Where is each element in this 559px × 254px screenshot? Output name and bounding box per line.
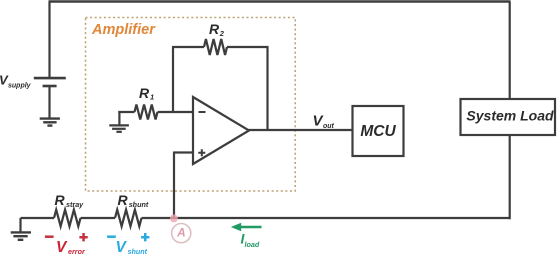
current arrow Iload: [231, 223, 262, 232]
label Rstray: [55, 192, 85, 209]
svg-text:MCU: MCU: [360, 123, 396, 140]
resistor R1: [135, 105, 158, 120]
wire: R1 to op-amp inverting input: [158, 111, 194, 113]
amplifier dashed boundary box: [86, 18, 296, 192]
wire: feedback left vertical: [172, 47, 174, 113]
svg-text:2: 2: [219, 29, 225, 38]
wire: top rail: [49, 0, 511, 2]
label Verror: [56, 239, 86, 254]
svg-text:load: load: [245, 240, 260, 249]
svg-text:1: 1: [150, 93, 154, 102]
wire: between Rstray and Rshunt: [81, 217, 116, 219]
svg-text:System Load: System Load: [466, 108, 554, 124]
ground: bottom left: [11, 218, 31, 240]
wire: feedback top right segment: [227, 46, 269, 48]
label Amplifier: [91, 22, 156, 38]
label Iload: [241, 231, 260, 250]
label Vout: [313, 113, 335, 131]
label Rshunt: [118, 192, 149, 209]
svg-text:R: R: [118, 192, 129, 208]
op-amp U1: [193, 97, 249, 164]
node A junction dot: [170, 214, 178, 222]
label node A (circled): [172, 224, 191, 243]
svg-text:out: out: [323, 123, 335, 130]
wire: ground to R1: [118, 111, 134, 113]
System Load box: [461, 99, 556, 135]
svg-text:supply: supply: [8, 83, 32, 90]
wire: + input vertical down to node A: [173, 152, 175, 219]
svg-text:shunt: shunt: [128, 247, 148, 254]
resistor Rstray: [54, 210, 81, 227]
resistor R2: [204, 39, 227, 55]
wire: bottom rail right segment: [142, 217, 511, 219]
label Vshunt: [116, 239, 148, 254]
svg-text:stray: stray: [66, 200, 84, 209]
wire: battery positive up to top rail: [48, 2, 50, 79]
wire: op-amp output to MCU: [248, 129, 353, 131]
ground: at R1 input: [109, 111, 129, 132]
wire: System Load down to bottom rail: [509, 135, 511, 219]
svg-text:shunt: shunt: [129, 200, 149, 209]
wire: top rail down to System Load: [509, 2, 511, 100]
polarity: Verror minus sign: [45, 235, 54, 238]
ground: under battery: [40, 119, 60, 126]
wire: op-amp + input horizontal: [174, 151, 193, 153]
svg-text:error: error: [68, 247, 86, 254]
svg-text:R: R: [55, 192, 66, 208]
polarity: Verror plus sign: [79, 233, 87, 241]
polarity: Vshunt plus sign: [141, 233, 149, 241]
MCU box U2: [353, 106, 404, 156]
svg-text:A: A: [176, 226, 186, 240]
wire: feedback top left segment: [172, 46, 204, 48]
wire: feedback right vertical down to output: [266, 46, 268, 130]
svg-text:Amplifier: Amplifier: [91, 22, 156, 38]
polarity: Vshunt minus sign: [107, 235, 116, 238]
label Vsupply: [0, 73, 32, 90]
resistor Rshunt: [115, 210, 142, 227]
label R1: [139, 85, 154, 102]
wire: bottom rail left segment: [21, 217, 55, 219]
wire: battery negative down: [48, 86, 50, 118]
svg-text:R: R: [139, 85, 150, 101]
svg-text:V: V: [56, 239, 68, 254]
svg-text:R: R: [209, 21, 220, 37]
svg-text:V: V: [116, 239, 128, 254]
battery V_supply: [34, 78, 66, 86]
label R2: [209, 21, 225, 38]
